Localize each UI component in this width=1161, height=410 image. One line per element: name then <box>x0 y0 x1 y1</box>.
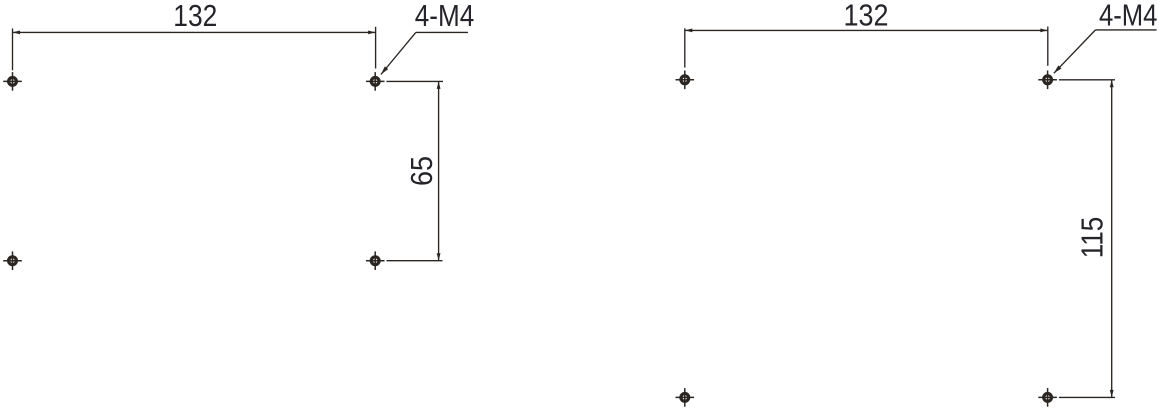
svg-text:115: 115 <box>1074 217 1109 259</box>
svg-text:132: 132 <box>844 0 889 33</box>
svg-text:65: 65 <box>404 156 439 186</box>
svg-text:4-M4: 4-M4 <box>1099 0 1158 33</box>
svg-text:132: 132 <box>173 0 217 33</box>
svg-text:4-M4: 4-M4 <box>415 0 475 33</box>
